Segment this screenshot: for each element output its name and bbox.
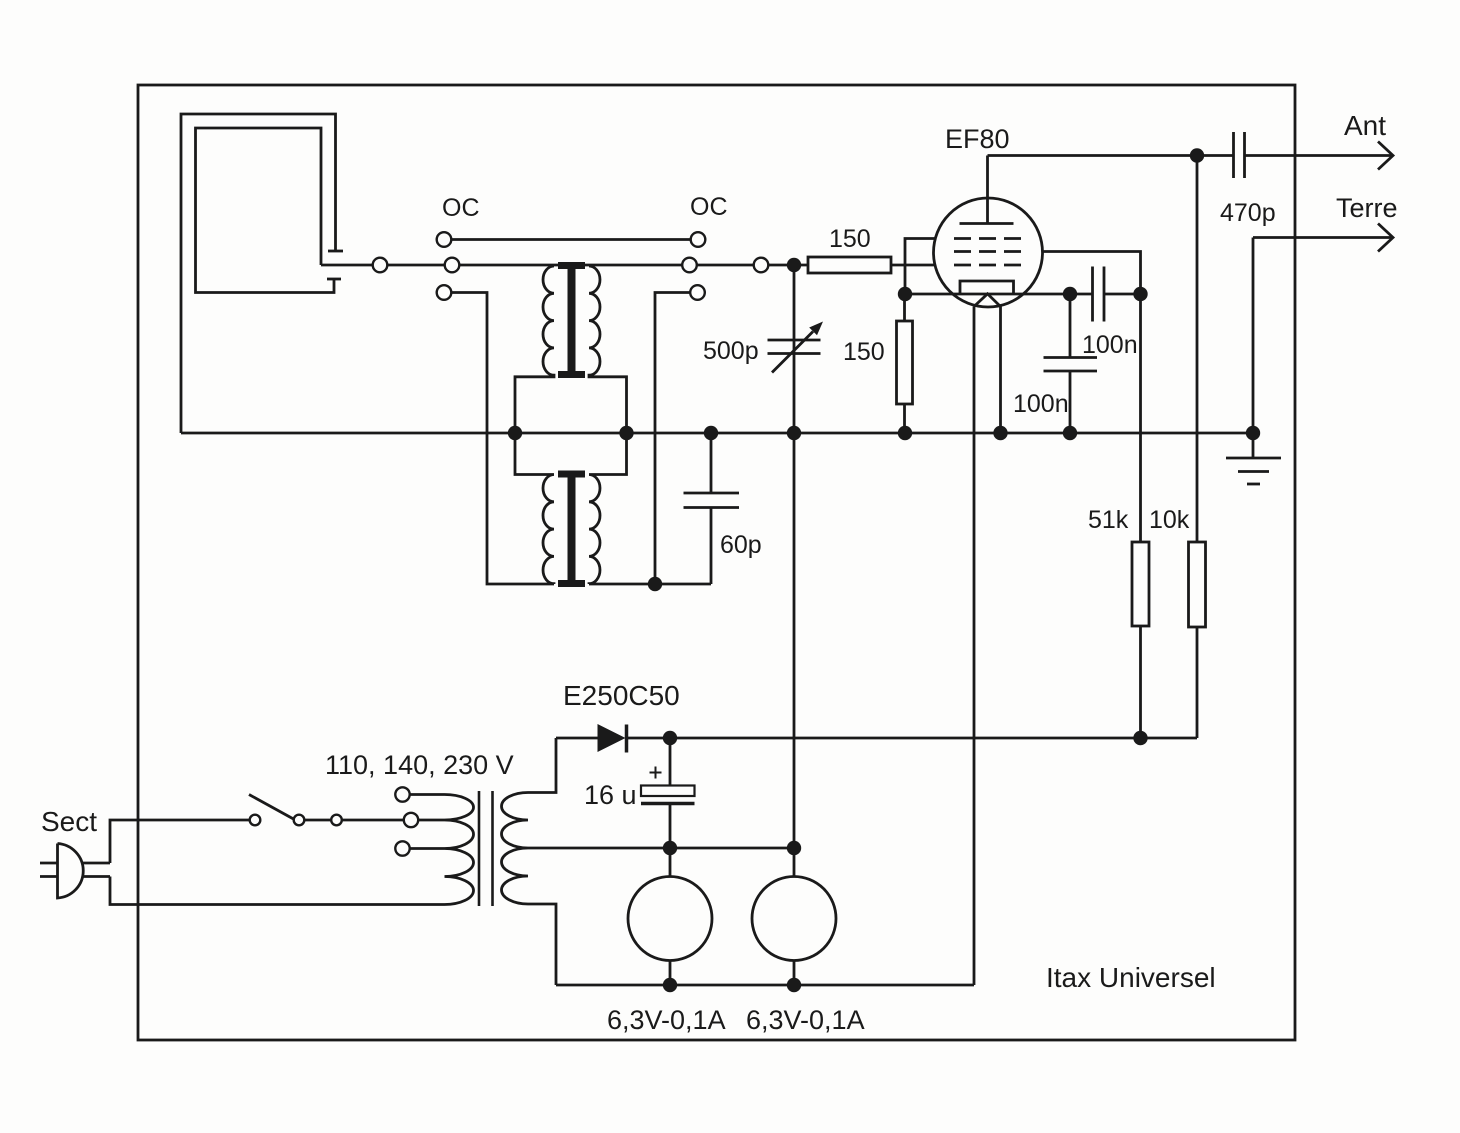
terminal OC2 bottom	[690, 285, 705, 300]
node bus/ground	[1246, 426, 1260, 440]
node signal/500p	[787, 258, 801, 272]
capacitor 60p	[710, 433, 713, 493]
node T2 bottom junction	[648, 577, 662, 591]
resistor 150 series (grid)	[808, 257, 891, 273]
svg-text:OC: OC	[442, 194, 480, 222]
svg-text:Ant: Ant	[1344, 110, 1386, 141]
svg-text:150: 150	[829, 225, 871, 253]
svg-text:6,3V-0,1A: 6,3V-0,1A	[746, 1005, 865, 1035]
tube anode plate	[960, 222, 1014, 225]
loop antenna crossover serif bottom	[327, 278, 341, 281]
svg-text:100n: 100n	[1013, 390, 1069, 418]
tube anode lead	[986, 156, 989, 224]
node bus/60p	[704, 426, 718, 440]
svg-text:16 u: 16 u	[584, 780, 637, 810]
svg-text:500p: 500p	[703, 337, 759, 365]
node cathode/100n	[1063, 287, 1077, 301]
wire: secondary bottom jog	[528, 904, 556, 985]
IF transformer T1 core	[568, 263, 576, 377]
wire: heater bottom line	[556, 984, 974, 987]
node bus/T2 right	[619, 426, 633, 440]
power transformer primary	[445, 795, 474, 905]
terminal antenna	[373, 258, 388, 273]
wire: anode line to antenna output	[988, 154, 1234, 157]
labels	[442, 193, 1276, 559]
wire: ground bus	[181, 432, 1253, 435]
switch contact 1	[250, 815, 261, 826]
wire: OC1 lower terminal to lower IFT coil	[451, 293, 554, 585]
wire: main signal line from loop antenna to grid resistor	[321, 264, 808, 267]
IF transformer T2 right coil	[589, 433, 627, 584]
wire: switch contacts	[305, 819, 332, 822]
wire: heater pin right to bus	[999, 307, 1002, 434]
node bus/T2 left	[508, 426, 522, 440]
wire: g3 to cathode link	[905, 239, 936, 295]
switch contact 3	[331, 815, 342, 826]
IF transformer T1 right coil	[589, 266, 627, 433]
IF transformer T2 core	[568, 471, 576, 586]
terminal tap 140V	[404, 813, 418, 827]
svg-text:Itax Universel: Itax Universel	[1046, 962, 1216, 993]
wire: link between OC terminals	[444, 238, 698, 241]
wire: heater pin left (long drop)	[973, 307, 976, 986]
power transformer core	[478, 791, 481, 906]
mains plug	[58, 844, 84, 899]
wire: screen grid g2 to 51k	[1043, 252, 1141, 543]
node anode/470p	[1190, 148, 1204, 162]
tube heater lamp 1	[669, 848, 672, 877]
wire: secondary mid tap heater line	[528, 847, 794, 850]
svg-text:Sect: Sect	[41, 806, 97, 837]
wire: plug to switch line	[83, 862, 110, 865]
border frame	[138, 85, 1295, 1040]
terminal OC1 top	[437, 232, 452, 247]
svg-text:10k: 10k	[1149, 506, 1190, 534]
wire: plug to bottom line	[83, 875, 110, 878]
capacitor 470p	[1232, 132, 1235, 178]
resistor 150 shunt (cathode)	[903, 294, 906, 321]
ground symbol	[1226, 457, 1281, 460]
node bus/heater pin	[993, 426, 1007, 440]
terminal circles	[250, 232, 769, 856]
tube grid g3 (dashed)	[954, 237, 1023, 240]
node 51k bottom	[1133, 731, 1147, 745]
terminal OC2 top	[691, 232, 706, 247]
terminal grid side	[754, 258, 769, 273]
wire: Terre down to bus	[1252, 238, 1255, 459]
capacitor 16u electrolytic	[669, 738, 672, 786]
node bus/150	[898, 426, 912, 440]
node bus/500p	[787, 426, 801, 440]
svg-text:51k: 51k	[1088, 506, 1129, 534]
tube grid g2 (dashed)	[954, 250, 1023, 253]
svg-text:470p: 470p	[1220, 199, 1276, 227]
loop antenna crossover serif top	[328, 250, 343, 253]
IF transformer T1 left coil	[515, 266, 554, 433]
svg-text:150: 150	[843, 338, 885, 366]
capacitor 100n decoupling (cathode to bus)	[1069, 294, 1072, 358]
wire: primary tap leads	[410, 793, 445, 796]
wire: secondary top to rectifier	[528, 738, 556, 793]
svg-text:110, 140, 230 V: 110, 140, 230 V	[325, 750, 514, 780]
node heater line/500p drop	[787, 841, 801, 855]
node heater bottom 1	[663, 978, 677, 992]
tube grid g1 (dashed)	[954, 264, 1023, 267]
terminal OC2 mid	[682, 258, 697, 273]
wire: Terre output arrow	[1253, 236, 1391, 239]
svg-text:100n: 100n	[1082, 331, 1138, 359]
switch contact 2	[294, 815, 305, 826]
tube heater lamp 2	[793, 848, 796, 877]
IF transformer T2 left coil	[515, 433, 554, 584]
capacitor 100n coupling (cathode to screen)	[1070, 293, 1093, 296]
switch S1 lever	[249, 795, 294, 820]
svg-text:Terre: Terre	[1336, 193, 1398, 223]
svg-text:EF80: EF80	[945, 124, 1010, 154]
node heater line/16u	[663, 841, 677, 855]
loop antenna inner turn	[196, 128, 335, 293]
loop antenna outer turn	[181, 114, 336, 433]
node bus/100n	[1063, 426, 1077, 440]
wire: Ant output arrow	[1245, 154, 1392, 157]
wire: OC2 lower terminal down to junction	[655, 293, 691, 585]
resistor 51k	[1132, 542, 1149, 626]
terminal tap 110V	[395, 787, 409, 801]
wire: cathode line	[905, 293, 1070, 296]
variable capacitor 500p arrow	[772, 332, 813, 373]
terminal OC1 mid	[445, 258, 460, 273]
wire: resistor to tube grid g1	[891, 264, 936, 267]
power transformer secondary	[502, 793, 529, 905]
svg-text:60p: 60p	[720, 531, 762, 559]
wire: T2 right coil bottom to 60p	[589, 583, 711, 586]
svg-text:OC: OC	[690, 193, 728, 221]
node heater bottom 2	[787, 978, 801, 992]
resistor 10k	[1196, 156, 1199, 543]
node rectifier output	[663, 731, 677, 745]
terminal OC1 bottom	[437, 285, 452, 300]
svg-text:E250C50: E250C50	[563, 680, 680, 711]
node 100n/screen	[1133, 287, 1147, 301]
variable capacitor 500p line	[793, 265, 796, 848]
terminal tap 230V	[395, 841, 409, 855]
diode E250C50	[556, 737, 598, 740]
variable capacitor 500p plates	[768, 339, 821, 342]
wire: rectifier output line to 51k/10k	[627, 737, 1198, 740]
tube EF80 envelope	[934, 198, 1043, 307]
tube cathode	[960, 281, 1014, 294]
16u polarity plus	[650, 772, 662, 774]
node cathode left	[898, 287, 912, 301]
tube heater caret	[974, 294, 1001, 307]
svg-text:6,3V-0,1A: 6,3V-0,1A	[607, 1005, 726, 1035]
